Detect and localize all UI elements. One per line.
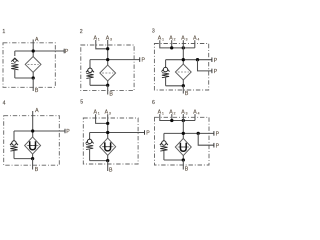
wire port B: [107, 85, 109, 94]
filter F2: [100, 65, 116, 81]
svg-text:B: B: [185, 91, 189, 97]
wire top rail to P: [166, 59, 212, 61]
port P tick upper: [211, 57, 213, 62]
wire port A1: [96, 40, 108, 49]
node bottom junction: [31, 157, 34, 160]
port P tick upper: [213, 131, 215, 136]
wire port A1: [96, 114, 108, 123]
node bottom junction: [32, 76, 35, 79]
node bottom junction: [106, 84, 109, 87]
node bus A3: [182, 46, 185, 49]
spring of V1: [11, 64, 18, 70]
svg-text:A: A: [35, 37, 39, 43]
wire bottom rail: [90, 160, 108, 162]
magnetic filter F6: [175, 138, 191, 155]
node rail-A junction: [32, 49, 35, 52]
wire top rail to P: [14, 130, 65, 132]
wire left branch lower: [89, 78, 91, 85]
wire left branch upper: [165, 60, 167, 68]
wire left branch upper: [14, 51, 16, 56]
svg-text:3: 3: [152, 28, 155, 34]
wire filter to bottom rail: [182, 80, 184, 86]
svg-text:P: P: [214, 58, 218, 64]
node A1-A3 junction: [106, 122, 109, 125]
enclosure border: [4, 116, 60, 166]
svg-text:5: 5: [80, 100, 83, 106]
wire filter to bottom rail: [182, 156, 184, 160]
svg-text:A4: A4: [193, 110, 199, 116]
svg-text:B: B: [109, 91, 113, 97]
svg-text:A2: A2: [169, 110, 175, 116]
svg-text:2: 2: [80, 29, 83, 35]
svg-text:A4: A4: [193, 36, 199, 42]
wire left branch lower: [13, 151, 15, 159]
wire port B: [32, 78, 34, 91]
wire filter to bottom rail: [107, 81, 109, 85]
svg-text:B: B: [35, 88, 39, 94]
wire port A3 down: [182, 40, 184, 64]
node rail junction: [106, 58, 109, 61]
wire bottom rail: [164, 159, 183, 161]
wire left branch lower: [165, 78, 167, 86]
svg-text:A: A: [35, 108, 39, 114]
wire port A1: [160, 40, 195, 48]
spring of V3: [162, 73, 169, 78]
svg-text:P: P: [216, 132, 220, 138]
node bus A2: [170, 46, 173, 49]
wire left branch upper: [89, 60, 91, 68]
svg-text:B: B: [185, 167, 189, 173]
wire branch to lower P: [198, 133, 214, 145]
svg-text:A1: A1: [158, 36, 164, 42]
svg-text:P: P: [65, 49, 69, 55]
wire top rail to P: [90, 132, 145, 134]
svg-text:6: 6: [152, 100, 155, 106]
enclosure border: [3, 43, 55, 88]
wire filter to bottom rail: [32, 154, 34, 159]
wire port B: [182, 160, 184, 170]
node A1-A3 junction: [106, 47, 109, 50]
enclosure border: [155, 117, 210, 165]
wire port A: [32, 111, 34, 137]
enclosure border: [154, 44, 208, 91]
filter F3: [175, 64, 191, 80]
spring of V2: [86, 73, 93, 78]
wire port B: [107, 161, 109, 171]
filter F1: [25, 57, 41, 73]
wire left branch lower: [89, 149, 91, 160]
node rail-filter junction: [182, 132, 185, 135]
port P tick: [144, 130, 146, 135]
svg-text:4: 4: [3, 100, 6, 106]
port P tick lower: [211, 69, 213, 74]
check valve V2: [86, 68, 94, 73]
wire port B: [32, 159, 34, 170]
node bottom junction: [182, 158, 185, 161]
wire filter to bottom rail: [107, 155, 109, 160]
wire port A2: [171, 40, 173, 48]
port P tick: [63, 49, 65, 54]
wire bottom rail: [14, 158, 33, 160]
node rail-branch junction: [197, 132, 200, 135]
wire left branch lower: [163, 151, 165, 160]
node rail junction: [106, 131, 109, 134]
port P tick lower: [213, 143, 215, 148]
wire bottom rail: [15, 77, 33, 79]
enclosure border: [83, 118, 138, 164]
wire top rail to P: [90, 59, 140, 61]
svg-text:B: B: [35, 167, 39, 173]
wire port A: [32, 40, 34, 57]
check valve V3: [162, 67, 170, 72]
port P tick: [64, 129, 66, 134]
svg-text:P: P: [146, 131, 150, 137]
wire port B: [182, 86, 184, 94]
check valve V5: [86, 139, 94, 144]
svg-text:A3: A3: [181, 36, 187, 42]
wire left branch upper: [89, 133, 91, 140]
svg-text:P: P: [216, 144, 220, 150]
wire top rail to P: [15, 50, 64, 52]
node rail junction: [31, 129, 34, 132]
check valve V6: [160, 141, 168, 146]
svg-text:A3: A3: [181, 110, 187, 116]
wire left branch lower: [14, 70, 16, 78]
wire port A3 down: [182, 114, 184, 139]
wire port A3: [107, 40, 109, 65]
wire left branch upper: [163, 133, 165, 140]
svg-text:A2: A2: [169, 36, 175, 42]
node bus A2: [170, 119, 173, 122]
svg-text:A3: A3: [106, 35, 112, 41]
svg-text:1: 1: [2, 29, 5, 35]
port P tick: [139, 57, 141, 62]
wire port A1: [160, 114, 195, 120]
node bottom junction: [106, 159, 109, 162]
wire port A3: [107, 114, 109, 139]
svg-text:A1: A1: [158, 110, 164, 116]
spring of V4: [10, 146, 17, 151]
svg-text:P: P: [142, 58, 146, 64]
svg-text:A1: A1: [94, 110, 100, 116]
wire top rail to P: [164, 132, 214, 134]
spring of V5: [86, 145, 93, 150]
node rail-branch junction: [196, 58, 199, 61]
node bottom junction: [182, 84, 185, 87]
magnetic filter F5: [100, 138, 116, 155]
wire port A4: [194, 40, 196, 48]
check valve V1: [11, 58, 18, 63]
svg-text:P: P: [214, 69, 218, 75]
wire port A4: [194, 114, 196, 120]
wire bottom rail: [90, 84, 108, 86]
svg-text:A1: A1: [94, 35, 100, 41]
svg-text:B: B: [109, 168, 113, 174]
svg-text:P: P: [66, 129, 70, 135]
wire left branch upper: [13, 131, 15, 141]
wire bottom rail: [166, 85, 184, 87]
check valve V4: [10, 141, 18, 146]
wire branch to lower P: [198, 60, 212, 71]
wire filter to bottom rail: [32, 72, 34, 78]
node rail-filter junction: [182, 58, 185, 61]
spring of V6: [160, 146, 167, 151]
node bus A3: [182, 119, 185, 122]
wire port A2: [171, 114, 173, 120]
enclosure border: [81, 45, 134, 91]
magnetic filter F4: [25, 137, 41, 154]
